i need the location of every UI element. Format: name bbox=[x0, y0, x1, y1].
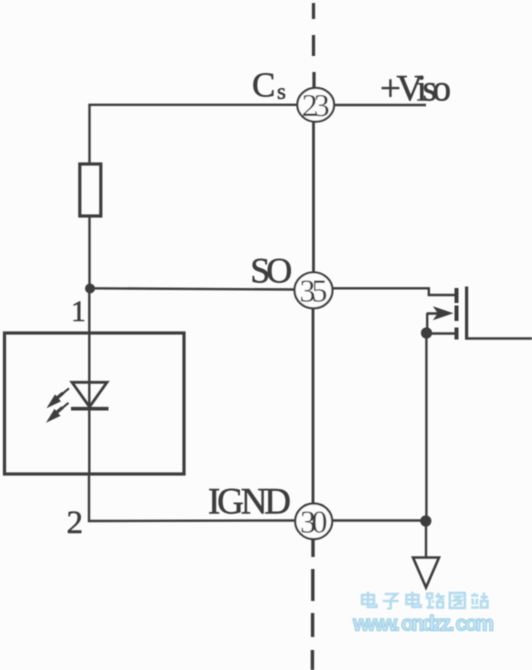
svg-text:2: 2 bbox=[67, 505, 84, 541]
pin 35 circle bbox=[295, 272, 333, 308]
watermark: 电子电路图站 (approximated strokes, light blue) bbox=[362, 592, 488, 609]
svg-text:+Viso: +Viso bbox=[380, 69, 451, 110]
svg-text:1: 1 bbox=[71, 295, 86, 328]
light arrow (upper) bbox=[47, 394, 62, 408]
char 站 bbox=[471, 593, 488, 608]
wire: ground node down to ground symbol bbox=[425, 521, 427, 558]
wire: pin 35 to MOSFET gate bbox=[333, 288, 455, 295]
wire: top rail left of pin 23 bbox=[90, 105, 298, 164]
svg-text:23: 23 bbox=[302, 87, 330, 123]
MOSFET Q1 gate/channel bars bbox=[455, 288, 459, 340]
wire: pin 23 to +Viso bbox=[334, 104, 426, 106]
svg-text:www. ondzz. com: www. ondzz. com bbox=[352, 613, 494, 636]
photodiode D1 cathode bar bbox=[71, 407, 109, 411]
node 1 junction dot bbox=[85, 284, 95, 294]
MOSFET source junction dot bbox=[421, 327, 432, 338]
svg-text:30: 30 bbox=[300, 503, 328, 539]
wire: MOSFET source node down to ground node bbox=[425, 333, 427, 521]
MOSFET body arrow bbox=[427, 312, 438, 315]
wire: MOSFET to right edge bbox=[465, 337, 532, 340]
char 子 bbox=[383, 594, 399, 609]
wire: pin 23 to pin 35 (solid vertical) bbox=[312, 121, 315, 273]
char 电 bbox=[362, 592, 377, 608]
svg-text:s: s bbox=[277, 79, 286, 104]
wire: node 1 down into optocoupler box bbox=[88, 288, 90, 474]
wire: box bottom to IGND rail bbox=[89, 474, 295, 521]
light arrow (lower) bbox=[46, 409, 61, 423]
dashed isolation line (bottom section) bbox=[311, 538, 315, 670]
ground symbol (open triangle) bbox=[413, 558, 439, 588]
pin 30 circle bbox=[295, 504, 332, 540]
wire: node 1 to pin 35 (SO) bbox=[90, 288, 295, 289]
ground node junction dot bbox=[420, 515, 431, 526]
pin 23 circle bbox=[297, 88, 334, 122]
wire: source dot to source bar bbox=[427, 332, 455, 335]
resistor R (left branch) bbox=[80, 164, 101, 216]
wire: arrow to source dot bbox=[426, 313, 428, 333]
wire: pin 35 to pin 30 (solid vertical) bbox=[312, 308, 315, 504]
svg-text:35: 35 bbox=[300, 272, 328, 308]
char 图 bbox=[450, 593, 465, 608]
wire: pin 30 to ground node bbox=[332, 519, 426, 521]
svg-text:IGND: IGND bbox=[208, 482, 291, 523]
MOSFET drain/source rail bbox=[465, 287, 468, 339]
dashed isolation line (top section) bbox=[312, 3, 316, 88]
wire: resistor to node 1 bbox=[88, 216, 90, 288]
photodiode D1 triangle bbox=[72, 382, 107, 407]
char 电 bbox=[406, 592, 421, 608]
svg-text:C: C bbox=[252, 66, 275, 105]
optocoupler box U1 bbox=[5, 333, 185, 474]
svg-text:SO: SO bbox=[250, 251, 292, 291]
char 路 bbox=[427, 593, 444, 608]
